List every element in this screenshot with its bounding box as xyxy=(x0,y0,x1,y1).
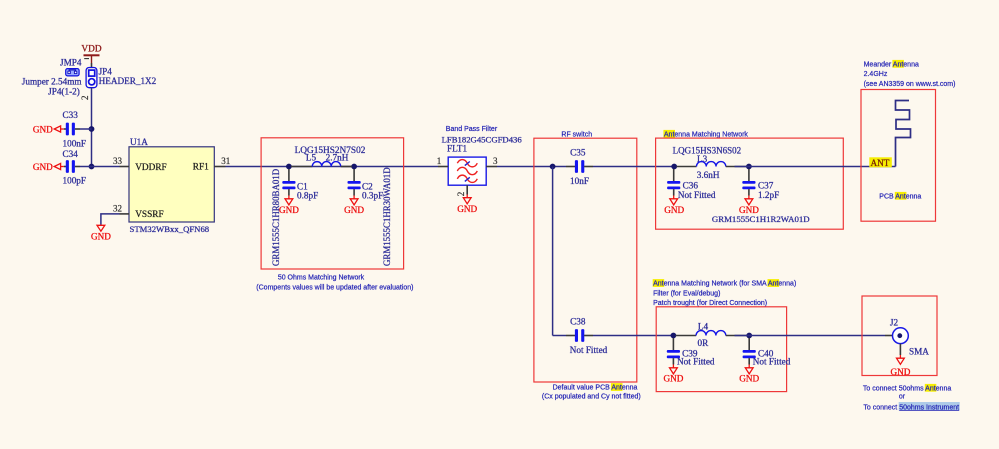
note: Default value PCB Antenna xyxy=(553,383,638,392)
ground symbol GND (FLT1) xyxy=(457,195,477,214)
svg-text:GND: GND xyxy=(664,205,684,215)
junction node at C2 xyxy=(351,164,357,170)
wire antenna matching to ANT xyxy=(735,166,896,168)
wire J2 to ground xyxy=(899,344,901,355)
svg-text:FLT1: FLT1 xyxy=(447,143,467,153)
svg-text:GND: GND xyxy=(279,205,299,215)
wire C34 to junction xyxy=(80,166,92,168)
pin 3 of FLT1 xyxy=(486,166,497,168)
svg-text:GND: GND xyxy=(344,205,364,215)
pin 1 of FLT1 xyxy=(438,166,448,168)
svg-text:C35: C35 xyxy=(570,147,586,157)
svg-text:L4: L4 xyxy=(698,322,709,332)
wire VDD to JP4 pin 1 xyxy=(91,63,93,68)
svg-text:GRM1555C1H1R2WA01D: GRM1555C1H1R2WA01D xyxy=(712,214,810,224)
svg-text:C33: C33 xyxy=(63,110,79,120)
wire FLT1 pin 3 to C35 xyxy=(497,166,566,168)
svg-text:2.4GHz: 2.4GHz xyxy=(864,71,888,78)
ground symbol GND (C39) xyxy=(663,365,683,384)
svg-text:0.3pF: 0.3pF xyxy=(362,191,383,201)
ground symbol GND (C36) xyxy=(664,196,684,215)
svg-text:J2: J2 xyxy=(890,318,899,328)
annotation box: Antenna Matching Network for SMA xyxy=(656,307,786,392)
svg-text:GND: GND xyxy=(33,125,53,135)
svg-text:GRM1555C1HR30WA01D: GRM1555C1HR30WA01D xyxy=(382,167,392,266)
svg-text:JMP4: JMP4 xyxy=(60,57,82,67)
ground symbol GND (C1) xyxy=(279,196,299,215)
svg-text:(Cx populated and Cy not fitte: (Cx populated and Cy not fitted) xyxy=(542,393,641,400)
svg-text:33: 33 xyxy=(113,156,123,166)
note: PCB Antenna xyxy=(879,192,921,201)
ground symbol GND (C33) xyxy=(33,125,64,135)
svg-text:100pF: 100pF xyxy=(63,176,87,186)
capacitor C1 xyxy=(282,169,318,201)
capacitor C36 xyxy=(667,169,716,200)
svg-text:2.7nH: 2.7nH xyxy=(326,152,349,162)
junction at C34 / pin 33 rail xyxy=(89,164,95,170)
note: Meander Antenna xyxy=(864,60,919,69)
svg-text:Not Fitted: Not Fitted xyxy=(570,345,608,355)
capacitor C35 xyxy=(566,147,593,186)
svg-text:PCB Antenna: PCB Antenna xyxy=(879,193,921,200)
svg-text:VSSRF: VSSRF xyxy=(135,210,163,220)
svg-text:GND: GND xyxy=(663,374,683,384)
svg-text:JP4: JP4 xyxy=(99,66,113,76)
pin 32 xyxy=(120,213,130,215)
svg-text:HEADER_1X2: HEADER_1X2 xyxy=(99,76,157,86)
svg-text:0R: 0R xyxy=(698,338,710,348)
connector J2 SMA xyxy=(893,328,909,344)
svg-text:GND: GND xyxy=(890,367,910,377)
svg-text:Filter (for Eval/debug): Filter (for Eval/debug) xyxy=(653,290,720,297)
svg-text:C36: C36 xyxy=(683,180,699,190)
ground symbol GND (C34) xyxy=(33,162,64,172)
svg-text:C34: C34 xyxy=(63,149,79,159)
capacitor C34 xyxy=(63,149,87,186)
annotation box: Antenna Matching Network xyxy=(656,138,844,229)
note: Antenna Matching Network (for SMA Antenna) xyxy=(653,279,797,288)
capacitor C33 xyxy=(63,110,87,148)
junction node at C40 xyxy=(746,333,752,339)
svg-text:VDD: VDD xyxy=(81,45,101,55)
wire junction to pin 33 xyxy=(92,166,120,168)
ground symbol GND (VSSRF) xyxy=(91,225,111,242)
svg-text:(Compents values will be updat: (Compents values will be updated after e… xyxy=(256,284,413,291)
svg-text:10nF: 10nF xyxy=(570,176,589,186)
wire to C38 xyxy=(553,335,566,337)
ground symbol GND (J2) xyxy=(890,355,910,377)
annotation box: 50 Ohms Matching Network xyxy=(261,138,404,269)
inductor L4 xyxy=(676,331,748,336)
svg-text:JP4(1-2): JP4(1-2) xyxy=(48,86,80,96)
wire RF switch vertical xyxy=(552,167,554,336)
svg-text:31: 31 xyxy=(221,156,230,166)
note: To connect 50ohms Antenna xyxy=(863,384,951,393)
svg-text:3: 3 xyxy=(493,156,498,166)
svg-text:50 Ohms Matching Network: 50 Ohms Matching Network xyxy=(278,275,365,282)
svg-text:Not Fitted: Not Fitted xyxy=(677,357,715,367)
svg-text:0.8pF: 0.8pF xyxy=(297,191,318,201)
svg-text:Default value PCB Antenna: Default value PCB Antenna xyxy=(553,385,638,392)
svg-text:VDDRF: VDDRF xyxy=(135,163,167,173)
junction node at C36 xyxy=(671,164,677,170)
wire C38 to lower matching network xyxy=(593,335,673,337)
wire JP4 pin2 down to VDDRF rail xyxy=(91,88,93,167)
wire L4 to SMA J2 xyxy=(735,335,886,337)
svg-text:GRM1555C1HR80BA01D: GRM1555C1HR80BA01D xyxy=(271,168,281,266)
svg-text:Not Fitted: Not Fitted xyxy=(753,357,791,367)
jumper JMP4 xyxy=(22,57,82,96)
svg-text:GND: GND xyxy=(33,162,53,172)
svg-text:RF1: RF1 xyxy=(193,162,209,172)
svg-text:U1A: U1A xyxy=(130,137,148,147)
svg-text:Meander Antenna: Meander Antenna xyxy=(864,61,919,68)
capacitor C37 xyxy=(742,169,779,200)
ground symbol GND (C40) xyxy=(739,365,759,384)
svg-text:To connect 50ohms Antenna: To connect 50ohms Antenna xyxy=(863,385,951,392)
wire pin 32 elbow to ground xyxy=(101,214,120,225)
svg-text:32: 32 xyxy=(113,203,122,213)
svg-text:L5: L5 xyxy=(306,152,317,162)
op-amp U1A (STM32WBxx_QFN68) xyxy=(129,137,214,234)
header JP4 HEADER_1X2 xyxy=(86,66,157,87)
svg-text:1.2pF: 1.2pF xyxy=(758,190,779,200)
pin 33 xyxy=(120,166,130,168)
capacitor C39 xyxy=(667,338,715,367)
svg-text:(see AN3359 on www.st.com): (see AN3359 on www.st.com) xyxy=(864,81,956,88)
svg-text:Not Fitted: Not Fitted xyxy=(678,190,716,200)
junction node at C37 xyxy=(746,164,752,170)
svg-text:C38: C38 xyxy=(570,317,586,327)
svg-text:ANT: ANT xyxy=(871,158,890,168)
svg-text:SMA: SMA xyxy=(909,347,929,357)
note: Antenna Matching Network xyxy=(663,130,748,139)
note: To connect 50ohms Instrument xyxy=(863,402,959,411)
svg-text:RF switch: RF switch xyxy=(561,131,592,138)
annotation box: RF switch xyxy=(534,138,637,382)
svg-text:3.6nH: 3.6nH xyxy=(697,170,720,180)
junction node RF switch tap xyxy=(550,164,556,170)
svg-text:Antenna Matching Network: Antenna Matching Network xyxy=(664,131,749,138)
capacitor C38 xyxy=(566,317,608,355)
svg-text:1: 1 xyxy=(437,156,442,166)
wire C35 to antenna matching network xyxy=(593,166,674,168)
node ANT net label xyxy=(869,157,892,168)
svg-text:Jumper 2.54mm: Jumper 2.54mm xyxy=(22,76,82,86)
svg-text:GND: GND xyxy=(91,231,111,241)
filter FLT1 xyxy=(448,157,486,185)
svg-text:or: or xyxy=(899,394,906,401)
inductor L3 xyxy=(677,162,747,167)
svg-text:Band Pass Filter: Band Pass Filter xyxy=(446,126,498,133)
power symbol VDD xyxy=(81,45,101,64)
inductor L5 xyxy=(291,162,352,167)
junction node at C39 xyxy=(671,333,677,339)
svg-text:GND: GND xyxy=(457,204,477,214)
junction node at C1 xyxy=(286,164,292,170)
ground symbol GND (C2) xyxy=(344,196,364,215)
pin 31 xyxy=(214,166,225,168)
wire pin 31 to FLT1 pin 1 xyxy=(226,166,439,168)
svg-text:2: 2 xyxy=(80,96,90,101)
capacitor C2 xyxy=(348,169,384,201)
annotation box: SMA xyxy=(862,296,937,376)
antenna meander element xyxy=(896,101,911,167)
svg-text:100nF: 100nF xyxy=(63,138,87,148)
wire C33 to junction xyxy=(80,128,92,130)
svg-text:C37: C37 xyxy=(758,180,774,190)
pin of J2 xyxy=(885,335,893,337)
svg-text:Patch trought (for Direct Conn: Patch trought (for Direct Connection) xyxy=(653,300,767,307)
annotation box: PCB antenna xyxy=(861,90,936,222)
svg-text:2: 2 xyxy=(456,192,466,197)
svg-text:STM32WBxx_QFN68: STM32WBxx_QFN68 xyxy=(130,224,210,234)
capacitor C40 xyxy=(743,338,791,367)
ground symbol GND (C37) xyxy=(739,196,759,215)
wire FLT1 pin 2 to ground xyxy=(466,185,468,194)
junction at C33 tap xyxy=(89,126,95,132)
svg-text:GND: GND xyxy=(739,374,759,384)
svg-text:Antenna Matching Network (for: Antenna Matching Network (for SMA Antenn… xyxy=(653,281,796,288)
pin 1 of JP4 (rotated numeral) xyxy=(84,58,89,60)
